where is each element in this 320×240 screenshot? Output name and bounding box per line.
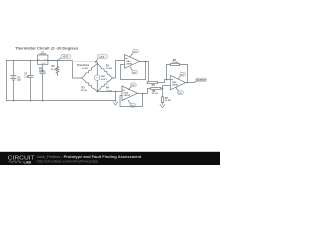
svg-text:9 V: 9 V <box>178 93 182 95</box>
flag OA3 V+ <box>178 72 186 79</box>
flag OA2 V- <box>128 100 136 107</box>
flag OA2 V+ <box>128 83 136 90</box>
node bridge bottom <box>97 91 98 92</box>
flag OA1 V+ <box>130 49 138 56</box>
flag +5V (bridge top) <box>96 55 108 64</box>
svg-text:COM: COM <box>41 63 46 65</box>
resistor R1 (bridge top-right arm) <box>97 64 112 79</box>
svg-text:9 V: 9 V <box>181 74 185 76</box>
flag OUTPUT <box>194 78 207 82</box>
svg-text:LM741: LM741 <box>172 84 179 87</box>
voltmeter VM1 (bridge center) <box>94 64 107 92</box>
svg-text:Thermistor Circuit @ -10 Degre: Thermistor Circuit @ -10 Degrees <box>15 46 78 51</box>
battery V1 <box>11 61 21 101</box>
op-amp OA2 <box>122 86 138 101</box>
svg-text:9 V: 9 V <box>133 51 137 53</box>
resistor R5 (OA1 to OA3) <box>147 80 170 90</box>
svg-text:+5 V: +5 V <box>99 56 104 59</box>
node OA3 minus <box>166 79 167 80</box>
node OA2 output <box>142 93 143 94</box>
resistor R2 <box>51 61 59 76</box>
svg-text:LM741: LM741 <box>124 94 131 97</box>
svg-text:9 V: 9 V <box>131 85 135 87</box>
flag OA1 V- <box>130 67 138 74</box>
svg-text:10 kΩ: 10 kΩ <box>172 62 178 64</box>
svg-text:VM1: VM1 <box>101 76 106 78</box>
node +5V junction <box>57 60 58 61</box>
svg-text:10 kΩ: 10 kΩ <box>81 90 87 92</box>
op-amp OA3 <box>170 75 186 89</box>
wire +5V to bridge left <box>58 61 82 79</box>
capacitor C1 <box>24 61 33 101</box>
node R7 top <box>162 88 163 89</box>
svg-text:0.00 V: 0.00 V <box>101 79 108 81</box>
wire OA2 feedback <box>120 94 143 107</box>
thermistor RT1 (bridge top-left arm) <box>77 64 97 79</box>
wire to OA3 plus <box>163 86 171 89</box>
wire bridge right to OA1 <box>112 61 124 79</box>
wire left vertical <box>6 61 8 101</box>
ground (R7) <box>160 104 165 107</box>
resistor R4 (bridge bottom-right arm) <box>97 78 112 92</box>
flag +5V (regulator output) <box>58 55 71 61</box>
ground (bottom rail) <box>115 101 117 102</box>
svg-text:LAB: LAB <box>24 159 32 164</box>
svg-text:10 kΩ: 10 kΩ <box>106 68 112 70</box>
wire OA1 feedback <box>121 62 146 80</box>
footer bar <box>0 152 220 165</box>
svg-text:100n: 100n <box>39 70 45 73</box>
wire top rail <box>7 60 58 62</box>
svg-text:LM741: LM741 <box>126 62 133 65</box>
svg-text:10 kΩ: 10 kΩ <box>82 68 88 70</box>
wire OA1 output <box>140 62 149 83</box>
svg-text:9 V: 9 V <box>133 72 137 74</box>
wire OA3 output <box>186 82 194 84</box>
node rail end <box>115 91 116 92</box>
flag OA3 V- <box>176 88 183 95</box>
wire rail end up <box>115 92 117 101</box>
wire bottom rail <box>7 100 116 102</box>
node OA3 output <box>187 82 188 83</box>
wire OA2 output <box>138 89 148 94</box>
wire faint rail segment <box>73 61 96 63</box>
node OA1 output <box>145 61 146 62</box>
resistor R6 (OA2 to OA3) <box>148 87 163 95</box>
regulator U1 <box>38 52 58 72</box>
node rail junctions <box>13 100 14 101</box>
svg-text:10 kΩ: 10 kΩ <box>152 93 158 95</box>
wire bridge bottom to OA2 <box>97 91 122 93</box>
logo waveform <box>8 161 22 163</box>
svg-text:Thermistor: Thermistor <box>77 64 90 67</box>
svg-text:+5 V: +5 V <box>63 56 68 59</box>
resistor R8 (OA3 feedback) <box>167 59 188 82</box>
resistor R3 (bridge bottom-left arm) <box>81 78 98 92</box>
op-amp OA1 <box>125 55 140 69</box>
node bridge top attach <box>95 61 96 62</box>
resistor R7 (to ground) <box>161 89 171 105</box>
svg-text:LM7805: LM7805 <box>40 54 47 56</box>
svg-text:http://circuitlab.com/c4mv87wq: http://circuitlab.com/c4mv87wqx3pa <box>37 158 99 163</box>
svg-text:10 kΩ: 10 kΩ <box>51 69 57 71</box>
svg-text:10 kΩ: 10 kΩ <box>165 100 171 102</box>
svg-text:1 uF: 1 uF <box>24 75 29 78</box>
svg-text:OUTPUT: OUTPUT <box>196 80 206 82</box>
capacitor C2 <box>39 67 45 100</box>
svg-text:9 V: 9 V <box>17 79 21 82</box>
